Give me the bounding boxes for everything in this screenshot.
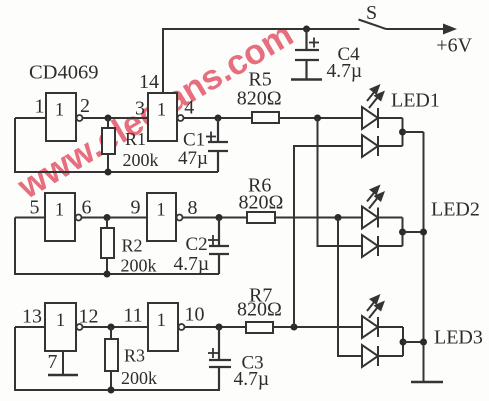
svg-text:1: 1	[157, 101, 166, 121]
svg-text:47µ: 47µ	[178, 148, 208, 169]
inverter U1E box	[45, 303, 76, 351]
svg-text:5: 5	[30, 197, 40, 219]
inverter U1C box	[45, 193, 75, 241]
node R6 junction	[335, 214, 342, 221]
wire U1C input from left	[15, 217, 45, 219]
node LED3 cathode	[400, 339, 407, 346]
wire U1A input from left	[15, 117, 46, 119]
node R3 top	[108, 324, 115, 331]
wire LED1 to right rail	[403, 131, 424, 133]
LED2 emission arrows	[367, 185, 385, 209]
capacitor C2	[209, 218, 229, 275]
wire stage3 feedback left/bottom rail	[15, 327, 220, 390]
resistor R6	[247, 212, 362, 223]
node R3 bottom	[108, 387, 115, 394]
wire U1C output to U1D input	[82, 217, 148, 219]
svg-text:200k: 200k	[123, 150, 159, 170]
wire stage2 feedback left/bottom rail	[15, 218, 219, 275]
ground right rail	[411, 381, 443, 383]
wire LED2 cathode join	[402, 218, 404, 247]
U1B output bubble	[178, 115, 184, 121]
C4 plus sign	[309, 38, 319, 48]
svg-text:200k: 200k	[121, 368, 157, 388]
wire U1A output to U1B input	[83, 117, 149, 119]
capacitor C3	[209, 327, 231, 390]
node LED2 cathode	[399, 229, 406, 236]
wire U1F output to R7	[185, 326, 247, 328]
resistor R2	[101, 218, 114, 275]
LED3 top diode	[362, 316, 403, 338]
svg-text:4: 4	[184, 97, 194, 119]
svg-text:200k: 200k	[121, 256, 157, 276]
svg-text:C2: C2	[186, 234, 208, 255]
node R1 bottom	[105, 169, 112, 176]
svg-text:1: 1	[156, 201, 165, 221]
svg-text:1: 1	[55, 101, 64, 121]
node C1 top	[215, 115, 222, 122]
wire U1E output to U1F input	[83, 326, 149, 328]
svg-text:6: 6	[82, 197, 92, 219]
node R2 top	[104, 214, 111, 221]
node R7/LED1b junction	[291, 324, 298, 331]
svg-text:LED2: LED2	[431, 199, 480, 221]
svg-text:14: 14	[139, 71, 159, 93]
wire U1E input from left	[15, 326, 45, 328]
node C2 top	[216, 214, 223, 221]
capacitor C1	[208, 118, 228, 172]
U1E output bubble	[77, 324, 83, 330]
svg-text:820Ω: 820Ω	[237, 299, 282, 321]
resistor R7	[246, 322, 362, 333]
svg-text:13: 13	[22, 306, 42, 328]
C3 plus sign	[208, 348, 218, 358]
svg-text:9: 9	[131, 197, 141, 219]
svg-text:820Ω: 820Ω	[237, 88, 282, 110]
U1A output bubble	[77, 115, 83, 121]
wire R6 node to LED3 bottom	[338, 218, 362, 357]
svg-text:1: 1	[56, 311, 65, 331]
resistor R5	[252, 112, 362, 123]
svg-text:10: 10	[185, 304, 205, 326]
resistor R1	[102, 118, 115, 172]
svg-text:LED3: LED3	[434, 327, 483, 349]
node R5/LED1	[314, 115, 321, 122]
inverter U1A box	[46, 93, 76, 141]
U1F output bubble	[179, 324, 185, 330]
wire LED1 cathode join	[402, 118, 404, 146]
C2 plus sign	[208, 235, 218, 245]
svg-text:1: 1	[157, 311, 166, 331]
svg-text:8: 8	[188, 197, 198, 219]
wire LED3 cathode join	[402, 327, 404, 356]
svg-text:+6V: +6V	[436, 35, 472, 57]
capacitor C4	[295, 29, 319, 80]
wire R5 node to LED2 bottom	[318, 118, 363, 246]
svg-text:LED1: LED1	[391, 90, 440, 112]
wire LED3 to right rail	[403, 341, 424, 343]
wire top +6V rail	[163, 29, 360, 93]
svg-text:CD4069: CD4069	[29, 62, 98, 84]
svg-text:4.7µ: 4.7µ	[327, 61, 363, 82]
U1C output bubble	[76, 215, 82, 221]
svg-text:4.7µ: 4.7µ	[174, 254, 210, 275]
node C4 junction	[303, 26, 310, 33]
inverter U1D box	[147, 193, 176, 241]
inverter U1F box	[148, 303, 178, 351]
LED3 emission arrows	[367, 294, 385, 318]
inverter U1B box	[148, 93, 177, 141]
node C3 top	[216, 324, 223, 331]
wire stage1 feedback left/bottom rail	[15, 118, 218, 172]
arrowhead +6V	[443, 24, 457, 35]
LED1 top diode	[362, 107, 403, 129]
resistor R3	[105, 327, 118, 390]
wire right ground rail	[423, 132, 425, 382]
wire switch output to arrow	[386, 28, 449, 30]
node R1 top	[105, 115, 112, 122]
svg-text:3: 3	[135, 98, 145, 120]
U1D output bubble	[177, 215, 183, 221]
svg-text:1: 1	[35, 96, 45, 118]
ground below C4	[291, 78, 322, 80]
LED2 bottom diode	[362, 235, 403, 257]
svg-text:2: 2	[80, 95, 90, 117]
node LED1 cathode	[399, 129, 406, 136]
LED1 emission arrows	[367, 84, 385, 108]
pin 7 lead	[62, 351, 64, 375]
LED3 bottom diode	[362, 345, 403, 367]
node LED2 rail junction	[420, 229, 427, 236]
wire U1D output to R6	[183, 217, 248, 219]
wire R7 node to LED1 bottom	[294, 146, 362, 327]
switch S blade	[359, 20, 387, 30]
LED1 bottom diode	[362, 135, 403, 157]
svg-text:R1: R1	[125, 129, 146, 149]
svg-text:R3: R3	[124, 346, 145, 366]
node R2 bottom	[104, 271, 111, 278]
svg-text:820Ω: 820Ω	[239, 192, 284, 214]
svg-text:4.7µ: 4.7µ	[234, 369, 270, 390]
wire LED2 to right rail	[403, 231, 424, 233]
wire U1B output to R5	[184, 117, 253, 119]
svg-text:R2: R2	[122, 236, 143, 256]
LED2 top diode	[362, 207, 403, 229]
node LED3 rail junction	[420, 339, 427, 346]
svg-text:S: S	[366, 2, 377, 24]
svg-text:7: 7	[48, 351, 58, 373]
ground pin 7	[48, 374, 78, 376]
svg-text:1: 1	[55, 201, 64, 221]
C1 plus sign	[206, 132, 216, 142]
svg-text:11: 11	[123, 305, 142, 327]
